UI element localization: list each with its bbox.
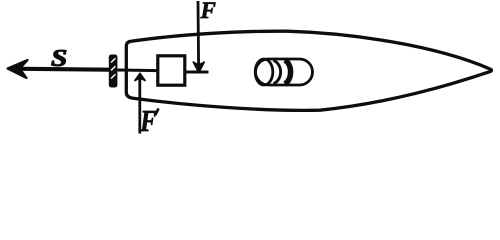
engine box (158, 56, 185, 85)
connecting shaft line from block to box (118, 69, 159, 73)
stub line right of box (185, 71, 209, 74)
force arrow F (shaft line) (197, 1, 200, 66)
cylinder (motor) outer capsule (256, 59, 313, 85)
hatched block (thrust bearing) (109, 55, 118, 88)
force arrow F' (head) (135, 73, 145, 80)
hatch marks on block (111, 58, 115, 78)
force arrow S (head) (8, 60, 28, 78)
svg-text:F: F (200, 0, 216, 23)
force arrow F' (shaft line) (138, 79, 141, 134)
cylinder middle arc (274, 60, 281, 83)
cylinder left end ellipse (255, 59, 273, 85)
cylinder thick arc (285, 60, 291, 84)
label F' (139, 104, 158, 139)
force arrow S (shaft line) (12, 69, 109, 70)
svg-text:S: S (51, 44, 67, 71)
force arrow F (head) (193, 62, 204, 73)
boat hull outline (126, 31, 491, 110)
svg-text:F: F (139, 104, 156, 139)
